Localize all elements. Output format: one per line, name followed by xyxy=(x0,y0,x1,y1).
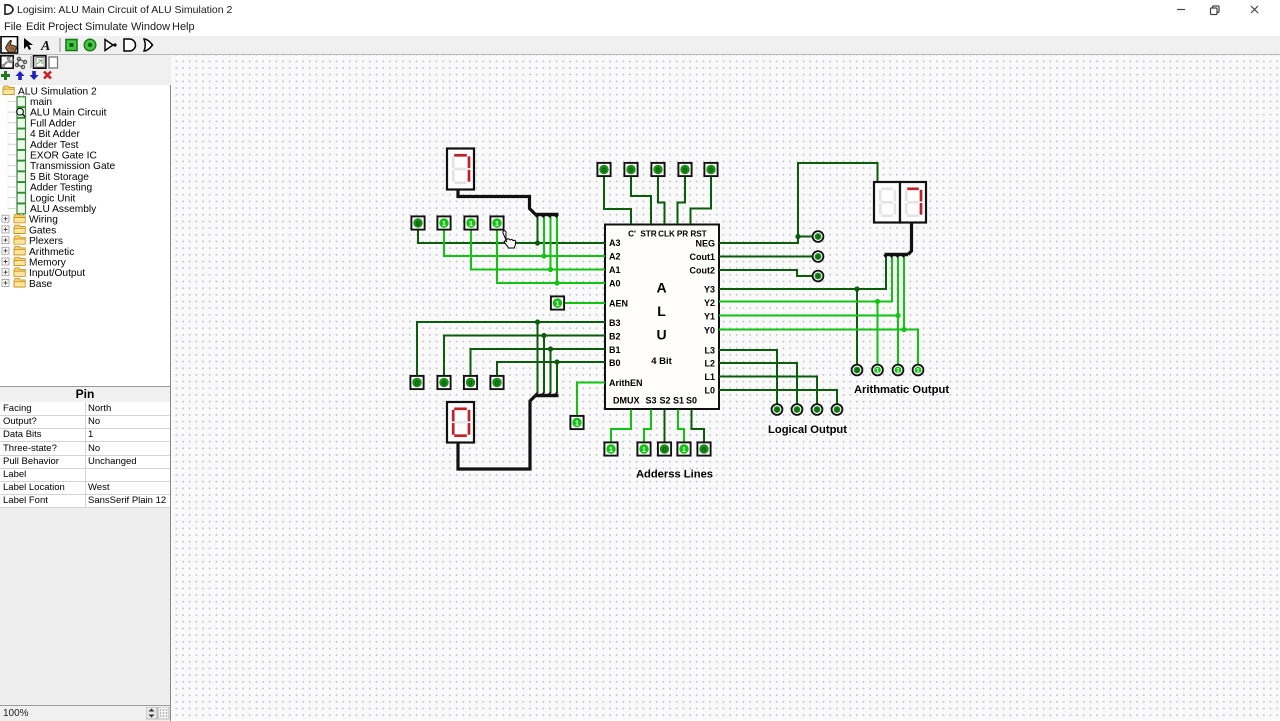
wire NEG xyxy=(719,237,812,244)
output pin Y3 (value 0) xyxy=(852,365,863,376)
menu bar xyxy=(0,20,1280,36)
node junction B3/splitter xyxy=(535,319,540,324)
wire L1 xyxy=(719,377,817,404)
svg-text:Transmission Gate: Transmission Gate xyxy=(30,161,115,172)
svg-text:ALU Main Circuit: ALU Main Circuit xyxy=(30,108,107,119)
wire 4-bit bundle display DS3 xyxy=(908,222,912,255)
svg-text:ALU Simulation 2: ALU Simulation 2 xyxy=(18,86,97,97)
input pin A2 (value 1) xyxy=(437,216,450,229)
wire S0 xyxy=(692,410,705,443)
input pin STR (value 0) xyxy=(624,163,637,176)
hierarchy icon xyxy=(15,57,26,68)
properties table xyxy=(0,402,171,508)
title bar xyxy=(0,0,1280,20)
node junction Y0 xyxy=(901,327,906,332)
svg-text:4 Bit Adder: 4 Bit Adder xyxy=(30,129,80,140)
wire Y1 xyxy=(719,315,898,317)
wire splitter bit3 to A3 xyxy=(537,216,539,243)
input pin B0 (value 0) xyxy=(490,376,503,389)
svg-text:Base: Base xyxy=(29,279,53,290)
svg-text:EXOR Gate IC: EXOR Gate IC xyxy=(30,151,97,162)
main toolbar xyxy=(0,36,1280,55)
node junction A0/splitter xyxy=(554,280,559,285)
node junction Y3 xyxy=(854,286,859,291)
U1 right pin labels xyxy=(690,239,716,396)
wire S3 xyxy=(644,410,651,443)
wire Y0 splitter vertical xyxy=(903,256,905,330)
input pin PR (value 0) xyxy=(678,163,691,176)
wire A3 bus line xyxy=(418,230,605,244)
node junction Y1 xyxy=(895,313,900,318)
wire S1 xyxy=(678,410,684,443)
wire NEG loop to display xyxy=(798,163,878,237)
input pin B2 (value 0) xyxy=(437,376,450,389)
splitter SP1 xyxy=(536,213,559,216)
node junction B1/splitter xyxy=(548,346,553,351)
node junction B0/splitter xyxy=(554,359,559,364)
splitter SP2 xyxy=(536,394,559,397)
U1 left pin labels xyxy=(609,238,643,406)
wire B0 to splitter SP2 xyxy=(556,362,558,393)
or gate icon xyxy=(144,39,153,51)
input pin AEN (value 1) xyxy=(551,296,564,309)
input pin DMUX (value 1) xyxy=(604,442,617,455)
row 3: plus, up, down, x xyxy=(1,71,10,80)
output pin Y1 (value 1) xyxy=(893,365,904,376)
wire B3 to splitter SP2 xyxy=(537,322,539,393)
input pin ArithEN (value 1) xyxy=(570,416,583,429)
output pin L0 (value 0) xyxy=(832,404,843,415)
U1 bottom pin labels S3 S2 S1 S0 xyxy=(645,396,697,406)
svg-text:Gates: Gates xyxy=(29,225,56,236)
svg-text:ALU Assembly: ALU Assembly xyxy=(30,204,97,215)
output pin Y2 (value 1) xyxy=(872,365,883,376)
U1 top pin labels C' STR CLK PR RST xyxy=(628,230,707,239)
output pin NEG (value 0) xyxy=(813,231,824,242)
input pin S0 (value 0) xyxy=(697,442,710,455)
wire 4-bit bundle from display DS1 xyxy=(458,190,536,215)
input pin S2 (value 0) xyxy=(658,442,671,455)
svg-text:Plexers: Plexers xyxy=(29,236,63,247)
wire Y2 xyxy=(719,256,892,302)
poke tool selected xyxy=(1,37,18,54)
splitter SP3 xyxy=(885,253,909,256)
op-amp U1: ALU 4-bit chip body xyxy=(605,225,719,410)
wire B2 bus line xyxy=(444,336,605,377)
explorer toolbar rows xyxy=(0,55,171,85)
Pin header xyxy=(0,386,171,403)
wire Y3 branch to output xyxy=(856,289,858,364)
input pin B1 (value 0) xyxy=(464,376,477,389)
input pin icon xyxy=(66,40,77,51)
node junction A2/splitter xyxy=(541,253,546,258)
node junction NEG xyxy=(795,234,800,239)
wrench selected xyxy=(1,56,13,68)
wire B1 to splitter SP2 xyxy=(550,349,552,393)
wire A1 bus line xyxy=(471,230,605,270)
wire A2 bus line xyxy=(444,230,605,257)
output pin Cout2 (value 0) xyxy=(813,271,824,282)
input pin CLK (value 0) xyxy=(651,163,664,176)
svg-text:A: A xyxy=(40,39,50,54)
wire Cout1 xyxy=(719,256,812,258)
wire splitter bit0 to A0 xyxy=(556,216,558,283)
wire AEN xyxy=(564,302,605,304)
poke cursor hand xyxy=(503,231,516,248)
wire B0 bus line xyxy=(497,362,605,376)
wire Y1 splitter/output vertical xyxy=(897,256,899,364)
7-segment display DS3a blank xyxy=(874,182,900,223)
input pin B3 (value 0) xyxy=(410,376,423,389)
wire B1 bus line xyxy=(471,349,606,376)
wire Y0 xyxy=(719,330,918,365)
output pin L1 (value 0) xyxy=(812,404,823,415)
wire B2 to splitter SP2 xyxy=(543,336,545,394)
wire L3 xyxy=(719,350,777,404)
U1 centre label ALU 4 Bit xyxy=(651,280,672,368)
input pin S3 (value 1) xyxy=(637,442,650,455)
separator xyxy=(59,38,61,52)
svg-text:Logic Unit: Logic Unit xyxy=(30,193,75,204)
wire ArithEN xyxy=(577,383,605,417)
circuit canvas xyxy=(171,55,1280,720)
input pin S1 (value 1) xyxy=(677,442,690,455)
wire B3 bus line xyxy=(417,322,605,376)
input pin A0 (value 1) xyxy=(490,216,503,229)
7-segment display DS3b showing 7 xyxy=(900,182,926,223)
wire L0 xyxy=(719,390,837,404)
edit arrow xyxy=(24,38,33,50)
wire DMUX xyxy=(611,410,631,443)
wire A0 bus line xyxy=(497,230,605,284)
output pin Cout1 (value 0) xyxy=(813,251,824,262)
wire Y2 branch to output xyxy=(877,302,879,365)
output pin L3 (value 0) xyxy=(772,404,783,415)
wire splitter bit2 to A2 xyxy=(543,216,545,256)
svg-text:Adder Test: Adder Test xyxy=(30,140,79,151)
svg-text:Full Adder: Full Adder xyxy=(30,118,76,129)
wire to STR input xyxy=(631,176,651,224)
wire Y3 xyxy=(719,256,886,289)
output pin Y0 (value 1) xyxy=(913,365,924,376)
node junction A3/splitter xyxy=(535,240,540,245)
wire Cout2 xyxy=(719,270,812,276)
svg-text:Arithmetic: Arithmetic xyxy=(29,247,74,258)
node junction B2/splitter xyxy=(541,333,546,338)
svg-text:Input/Output: Input/Output xyxy=(29,268,85,279)
doc with arrow selected xyxy=(34,56,46,68)
project tree xyxy=(0,85,171,386)
7-segment display DS2 showing 0 xyxy=(447,402,474,443)
input pin RST (value 0) xyxy=(704,163,717,176)
7-segment display DS1 showing 7 xyxy=(447,149,474,190)
svg-text:main: main xyxy=(30,97,52,108)
and gate icon xyxy=(124,39,136,51)
wire to RST input xyxy=(691,176,712,224)
svg-text:Memory: Memory xyxy=(29,258,67,269)
plain doc xyxy=(49,57,58,68)
wire to PR input xyxy=(678,176,686,224)
svg-text:Adder Testing: Adder Testing xyxy=(30,183,92,194)
not gate icon xyxy=(105,40,113,51)
node junction Y2 xyxy=(875,299,880,304)
input pin A3 (value 0) xyxy=(411,216,424,229)
wire S2 xyxy=(664,410,666,443)
input pin C' (value 0) xyxy=(597,163,610,176)
bottom bar xyxy=(0,705,171,721)
wire L2 xyxy=(719,363,797,404)
input pin A1 (value 1) xyxy=(464,216,477,229)
wire splitter bit1 to A1 xyxy=(550,216,552,270)
output pin L2 (value 0) xyxy=(792,404,803,415)
svg-text:5 Bit Storage: 5 Bit Storage xyxy=(30,172,89,183)
node junction A1/splitter xyxy=(548,267,553,272)
wire 4-bit bundle from SP2 to display DS2 xyxy=(458,396,536,470)
wire to CLK input xyxy=(658,176,665,224)
svg-text:Wiring: Wiring xyxy=(29,215,58,226)
output pin icon xyxy=(84,39,96,51)
wire to C' input xyxy=(604,176,631,224)
